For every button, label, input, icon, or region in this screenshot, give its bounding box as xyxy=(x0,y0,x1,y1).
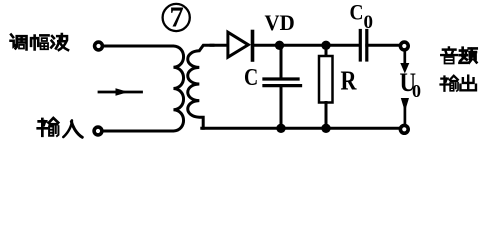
primary winding loop (wire + coil L1) xyxy=(102,46,183,131)
svg-text:R: R xyxy=(341,67,358,97)
terminal input bottom xyxy=(94,127,102,135)
svg-text:VD: VD xyxy=(265,10,295,35)
svg-text:7: 7 xyxy=(169,3,183,34)
label 音频 (audio) xyxy=(441,47,457,63)
wire C0 to output terminal xyxy=(367,44,400,47)
current direction arrow xyxy=(99,91,142,94)
label 输入 (input) xyxy=(38,118,59,136)
svg-text:0: 0 xyxy=(412,81,421,101)
U0 arrow upper segment (shaft + down head) xyxy=(403,51,406,65)
terminal output top xyxy=(400,42,408,50)
node junction top of R xyxy=(321,41,330,50)
circled 7 badge xyxy=(163,4,190,31)
resistor R body xyxy=(319,56,333,103)
resistor R bottom lead xyxy=(325,103,328,129)
svg-text:0: 0 xyxy=(364,12,374,33)
terminal output bottom xyxy=(400,125,408,133)
coupling capacitor C0 plates xyxy=(359,31,362,61)
node junction top of C xyxy=(275,41,284,50)
bottom rail wire xyxy=(202,127,400,130)
svg-text:C: C xyxy=(350,1,364,24)
capacitor C bottom lead xyxy=(280,88,283,129)
node junction bottom of C xyxy=(276,124,285,133)
capacitor C branch: top lead xyxy=(280,45,283,77)
wire secondary to diode xyxy=(211,44,227,47)
diode VD cathode bar xyxy=(251,32,255,61)
terminal input top xyxy=(95,42,103,50)
svg-text:C: C xyxy=(244,63,258,90)
resistor R branch: top lead xyxy=(325,45,328,56)
U0 arrow lower segment (down head + shaft to terminal) xyxy=(401,98,409,112)
label 输出 (output) xyxy=(441,76,459,91)
wire diode to C0 xyxy=(253,44,360,47)
capacitor C plates xyxy=(264,77,298,80)
diode VD triangle xyxy=(228,32,248,57)
label 调幅波 (AM wave input label) xyxy=(11,35,27,50)
secondary winding (coil L2) xyxy=(188,45,213,128)
node junction bottom of R xyxy=(321,124,330,133)
